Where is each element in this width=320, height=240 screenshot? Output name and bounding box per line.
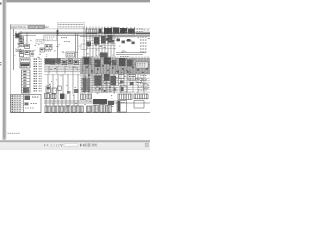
battery box B1 [20, 58, 30, 62]
wire left riser [14, 35, 37, 37]
right-mid cluster [119, 58, 126, 66]
vertical wires right-low [118, 70, 120, 86]
lower band verticals mid [83, 74, 85, 93]
relay row RL1 [45, 59, 49, 64]
center band lower horizontals [80, 72, 150, 74]
header block with revision text [58, 23, 85, 29]
center band noise [57, 58, 58, 61]
legend table rows [11, 96, 24, 98]
toolbar play icon [80, 143, 82, 147]
connector box CN3 [66, 52, 74, 57]
center bus extra wires [80, 58, 150, 60]
top page-edge shadow [3, 0, 150, 2]
label marks left cluster [16, 49, 17, 50]
vertical wires center-low [47, 74, 49, 94]
relay row RL3 [56, 59, 60, 63]
band dark speckle [86, 67, 88, 69]
lower center noise [99, 87, 101, 90]
junction boxes row [45, 45, 52, 50]
mid area label noise [59, 43, 60, 46]
component cluster M1 [87, 42, 92, 47]
toolbar stop box [88, 143, 91, 146]
bottom verticals [45, 94, 47, 106]
lamp box LL1 [120, 86, 127, 92]
low mid noise [51, 80, 52, 83]
page bottom edge shadow [0, 139, 150, 142]
bus wire A [19, 31, 151, 33]
lower band h-wires [80, 77, 150, 79]
component cluster M3 [101, 36, 106, 44]
component frame JB0 [44, 35, 57, 41]
bottom-right hatch rows [118, 94, 132, 99]
title sub box [29, 26, 45, 29]
lower band scan wash [81, 74, 118, 93]
dark bits lower mid [74, 89, 79, 93]
bottom frame line [44, 112, 150, 114]
dark cluster bottom-center [93, 99, 107, 104]
fuse box F4 [20, 54, 24, 57]
component cluster M2 [94, 37, 100, 45]
relay row RL5 [68, 59, 72, 64]
left frame line [10, 24, 12, 113]
scatter marks mid [61, 37, 62, 38]
scatter text top-center [98, 49, 100, 52]
bottom band noise [76, 105, 78, 106]
dense node cluster G4 [112, 60, 117, 66]
marks bottom right band [138, 87, 140, 88]
lower small boxes [119, 75, 124, 79]
toolbar slider track [64, 144, 78, 147]
bottom-right empty box [134, 101, 144, 109]
alternator hatch block [82, 78, 90, 92]
toolbar fullscreen icon [145, 143, 149, 147]
center band scan wash [81, 57, 151, 75]
legend right cluster [25, 96, 31, 101]
toolbar V mark [60, 144, 62, 147]
vertical harness wires top-center [83, 27, 85, 59]
relay K1 [16, 34, 20, 38]
dark sub-block R1 [106, 38, 109, 41]
arrow mark on divider [57, 30, 59, 34]
title bar continuation line [45, 28, 151, 30]
wires to right edge [136, 32, 150, 34]
lower band verticals right [84, 74, 86, 93]
relay row RL6 [74, 60, 78, 65]
lower-right bus pair [116, 52, 146, 54]
label frame LF1 [36, 39, 44, 44]
toolbar background [0, 143, 150, 150]
fuse column housing [22, 70, 31, 93]
upper connector row [45, 94, 50, 99]
title bar frame [11, 25, 45, 29]
title bar right boxes [86, 29, 97, 33]
wire vertical main left [13, 29, 15, 70]
page background [0, 0, 150, 150]
fuse box F2 [19, 44, 24, 47]
fuse box F0 [19, 37, 24, 40]
label box right [136, 62, 148, 68]
relay box K2 [25, 51, 29, 55]
terminal list left col [34, 59, 36, 60]
page footer tiny text [8, 133, 10, 134]
relay row dark emphasis [45, 59, 56, 65]
bottom-right box with dark strip [117, 101, 127, 113]
bus wire B [19, 33, 151, 35]
dense node cluster G2 [95, 60, 101, 68]
toolbar fast-forward icon [83, 143, 85, 146]
dark sub-block R2 [122, 41, 125, 44]
wire vertical divider [57, 29, 59, 58]
legend table frame [11, 95, 42, 113]
small box J2 [40, 48, 44, 52]
fuse box F3 [19, 50, 23, 53]
center band crisscross verticals [82, 57, 84, 75]
toolbar page-first icon [43, 144, 46, 147]
small box row right-low [128, 75, 136, 81]
center bus wires [44, 58, 150, 60]
connector block row CN16-CN19 [87, 106, 92, 112]
lower center h-stubs [92, 77, 118, 79]
small boxes above footer [46, 86, 51, 92]
top-center horizontal stubs [86, 37, 116, 39]
regulator cluster [95, 76, 102, 85]
starter box B2 [20, 63, 30, 68]
legend row marks [12, 95, 14, 96]
left page-gap gray bar [3, 0, 6, 139]
ignition unit block [104, 28, 112, 34]
title bar right marks [99, 29, 102, 34]
switch S1 [25, 44, 30, 48]
bus wire C [44, 34, 150, 36]
left area label noise [23, 41, 25, 44]
junction cluster right [104, 74, 110, 81]
wire K1 to bus [15, 31, 17, 34]
bottom bus wires [44, 100, 116, 102]
center dense noise [96, 73, 98, 76]
right margin label dashes [140, 37, 142, 38]
component cluster M5 [100, 53, 108, 58]
component cluster M4 [108, 35, 113, 43]
component S2 marks [30, 51, 32, 52]
bus wire D [80, 36, 150, 38]
legend table divider [23, 95, 25, 113]
dark sub-block R3 [137, 29, 139, 30]
top-right noise [147, 30, 148, 33]
dense node cluster G3 [104, 58, 111, 65]
relay row RL4 [62, 60, 67, 65]
wire pair right of divider [75, 33, 77, 58]
fuse box F1 [19, 40, 24, 43]
dense node cluster G1 [84, 58, 90, 65]
prev-page ink fragment top-left [0, 2, 2, 4]
relay row RL2 [51, 60, 55, 64]
right-low noise [124, 75, 126, 78]
upper blocks row2 [81, 94, 86, 99]
band verticals mid-left [48, 66, 50, 74]
svg-text:1 / 17: 1 / 17 [51, 144, 60, 148]
center bus lower wires [80, 73, 150, 75]
toolbar zoom readout box [91, 143, 97, 147]
prev-page ink fragment mid-left [0, 62, 1, 63]
fuse column cells [22, 72, 31, 74]
connector block row CN10-CN15 [45, 106, 50, 112]
terminal list right col [39, 59, 40, 60]
